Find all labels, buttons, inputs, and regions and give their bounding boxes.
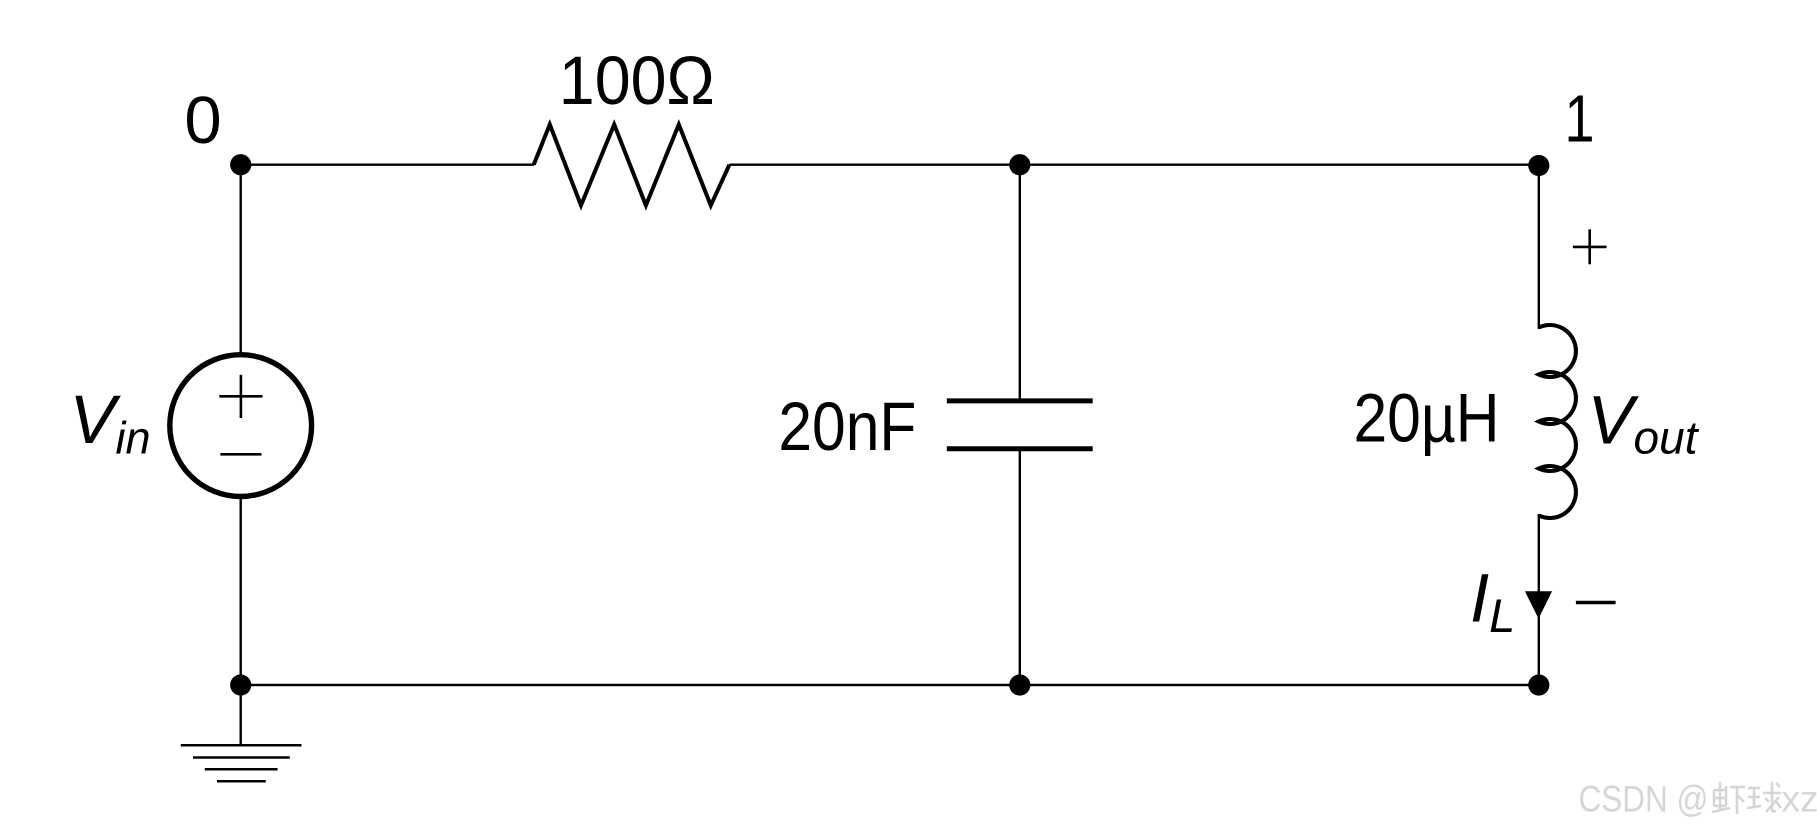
plus sign Vout polarity near node 1 (1573, 246, 1607, 249)
ground symbol line 3 (205, 768, 278, 771)
resistor R 100 ohm zigzag (534, 125, 730, 206)
svg-text:100Ω: 100Ω (559, 42, 715, 119)
junction dot node 1 (1528, 155, 1549, 176)
wire capacitor branch upper (1019, 165, 1021, 401)
junction dot bottom right (1528, 674, 1549, 695)
voltage source V_in circle (170, 355, 312, 497)
glyph 球 (1747, 782, 1781, 812)
wire top right: resistor to node 1 (729, 163, 1538, 165)
wire inductor branch lower: coil to bottom node (1538, 514, 1540, 685)
watermark CSDN @虾球xz (1579, 779, 1817, 820)
wire top left: node 0 to resistor (241, 163, 534, 165)
wire capacitor branch lower (1019, 449, 1021, 686)
svg-text:0: 0 (184, 83, 221, 158)
capacitor C 20nF top plate (947, 398, 1093, 403)
junction dot capacitor bottom (1009, 674, 1030, 695)
svg-text:1: 1 (1565, 82, 1595, 157)
junction dot bottom left (230, 674, 251, 695)
junction dot capacitor top (1009, 154, 1030, 175)
wire left vertical lower: source bottom to bottom node (239, 496, 241, 685)
svg-text:xz: xz (1782, 779, 1817, 820)
svg-text:CSDN @: CSDN @ (1579, 779, 1709, 820)
wire left vertical upper: node 0 to source top (239, 165, 241, 355)
svg-text:20nF: 20nF (778, 388, 916, 465)
ground symbol line 2 (193, 756, 290, 759)
source plus sign (219, 395, 262, 398)
junction dot node 0 (230, 154, 251, 175)
current arrow I_L (1525, 591, 1552, 618)
glyph 虾 (1712, 782, 1745, 814)
ground symbol line 1 (181, 744, 302, 747)
minus sign Vout polarity near bottom (1576, 601, 1616, 604)
wire inductor branch upper: node 1 to coil (1538, 165, 1540, 329)
ground symbol line 4 (217, 780, 266, 783)
svg-text:20µH: 20µH (1354, 380, 1500, 457)
wire ground stub (239, 685, 241, 745)
source minus sign (220, 453, 261, 456)
inductor L 20µH coil (1539, 325, 1576, 518)
capacitor C 20nF bottom plate (947, 446, 1093, 451)
wire bottom rail (241, 684, 1539, 686)
